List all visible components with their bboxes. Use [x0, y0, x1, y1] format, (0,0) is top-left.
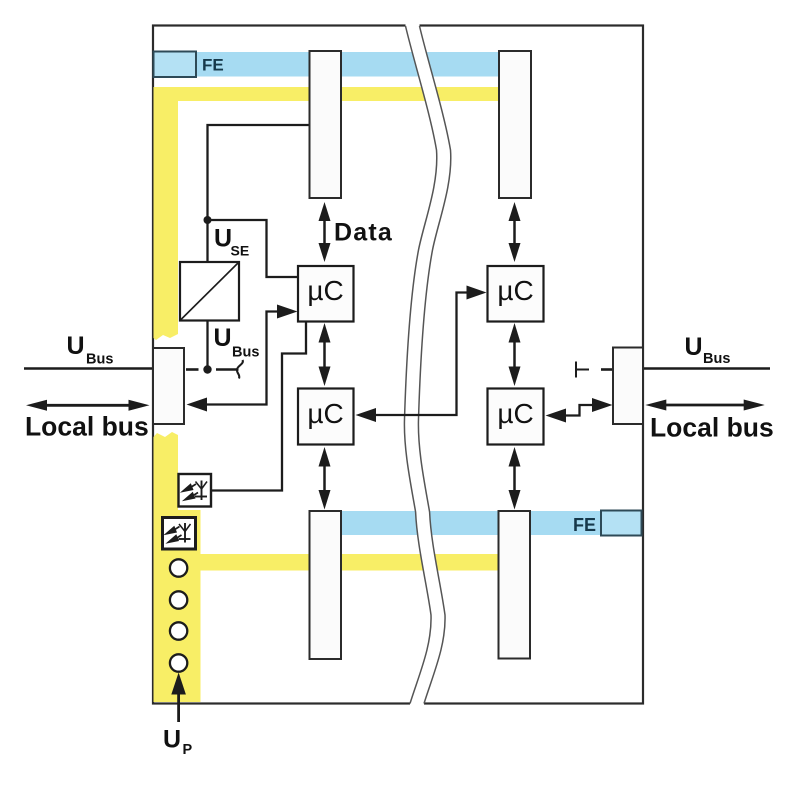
local bus connector right [613, 348, 643, 425]
dashed UBus jumper left [186, 360, 243, 379]
FE potential rail top (blue) [154, 52, 532, 77]
data arrow uC1-uC2 [319, 323, 331, 386]
local bus arrow left [26, 400, 150, 411]
power rail bottom (yellow) [176, 554, 498, 571]
svg-text:U: U [214, 324, 232, 352]
wire: uC4 to right connector (double-head zigzag) [546, 398, 613, 423]
local bus arrow right [645, 400, 764, 411]
svg-text:Data: Data [334, 219, 393, 247]
data arrow top-right (connector2 to uC3) [509, 202, 521, 262]
wire: uC2 to uC3 cross link [356, 286, 487, 423]
module housing frame [153, 26, 643, 704]
break symbol (wavy continuation band) [404, 24, 450, 707]
wire: converter output down to UBus node [206, 321, 208, 370]
power rail left lower (yellow, torn top, widens at bottom) [154, 432, 201, 702]
data arrow top-left (connector1 to uC1) [319, 202, 331, 262]
microcontroller uC3 [488, 266, 544, 322]
svg-text:µC: µC [307, 398, 343, 429]
wire: top bus contact to junction node [208, 125, 311, 262]
svg-text:U: U [685, 333, 703, 361]
microcontroller uC1 [298, 266, 354, 322]
svg-text:Bus: Bus [703, 351, 730, 367]
dashed UBus jumper right [576, 362, 613, 378]
bus contact connector top-right [499, 51, 531, 198]
svg-text:P: P [183, 742, 193, 758]
FE terminal box bottom-right [601, 511, 642, 536]
wire: LED1 to uC1 supply [211, 322, 306, 491]
svg-text:FE: FE [573, 515, 596, 535]
local bus connector left [153, 348, 184, 424]
supply terminal point 2 [170, 591, 187, 608]
svg-text:Local bus: Local bus [650, 413, 774, 443]
svg-text:Bus: Bus [232, 345, 259, 361]
node junction USE [204, 216, 212, 224]
svg-text:FE: FE [202, 56, 224, 75]
svg-text:Local bus: Local bus [25, 412, 149, 442]
svg-text:SE: SE [231, 243, 250, 259]
FE potential rail bottom (blue) [310, 511, 642, 535]
svg-text:µC: µC [497, 398, 533, 429]
supply terminal point 4 [170, 654, 187, 671]
wire: junction to uC1 upper input [208, 220, 298, 277]
UBus line right [644, 367, 771, 369]
svg-text:U: U [214, 225, 232, 253]
wire: local bus connector to uC1 (double-head zigzag) [187, 305, 298, 412]
bus contact connector top-left [310, 51, 342, 198]
UBus line left [24, 367, 153, 369]
data arrow uC3-uC4 [509, 323, 521, 386]
UP supply arrow [171, 673, 186, 723]
microcontroller uC2 [298, 389, 354, 445]
data arrow uC4-connector4 [509, 447, 521, 510]
supply terminal point 1 [170, 559, 187, 576]
node UBus [203, 365, 211, 373]
microcontroller uC4 [488, 389, 544, 445]
diagnostics LED box 2 [163, 518, 196, 550]
power rail left upper (yellow, torn end) [154, 87, 179, 340]
data arrow uC2-connector3 [319, 447, 331, 510]
FE terminal box top-left [154, 52, 197, 78]
svg-text:U: U [67, 332, 85, 360]
bus contact connector bottom-left [310, 511, 342, 659]
svg-text:Bus: Bus [86, 352, 113, 368]
diagnostics LED box 1 [179, 474, 212, 507]
supply terminal point 3 [170, 622, 187, 639]
bus contact connector bottom-right [499, 511, 531, 659]
svg-text:U: U [163, 726, 181, 754]
svg-text:µC: µC [307, 275, 343, 306]
svg-text:µC: µC [497, 275, 533, 306]
power rail top (yellow) [154, 87, 500, 101]
voltage converter (diagonal box) [180, 262, 239, 321]
